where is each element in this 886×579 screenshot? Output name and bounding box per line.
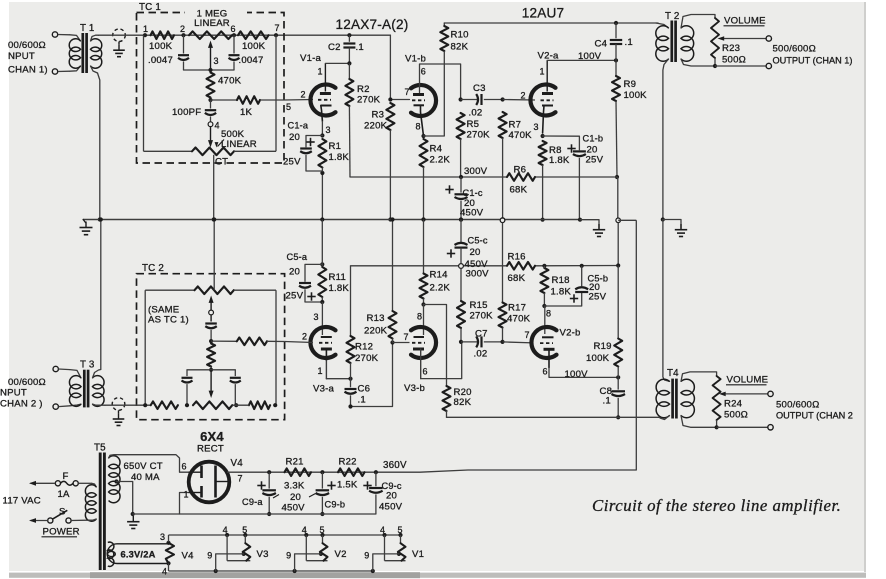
label VOLUME channel 1 xyxy=(724,16,766,27)
svg-text:1.8K: 1.8K xyxy=(329,152,350,163)
label 1 MEG LINEAR xyxy=(194,9,230,30)
svg-text:R3: R3 xyxy=(372,110,385,121)
svg-text:6.3V/2A: 6.3V/2A xyxy=(121,550,156,560)
resistor R10 xyxy=(440,23,468,136)
capacitor C1-c xyxy=(445,177,483,222)
svg-text:470K: 470K xyxy=(507,314,531,325)
resistor 1K TC2 xyxy=(211,338,285,346)
output terminals channel 1 xyxy=(715,36,852,69)
svg-text:.0047: .0047 xyxy=(148,55,173,66)
wire V3-b grid xyxy=(393,342,410,344)
svg-text:300V: 300V xyxy=(466,269,490,280)
heater rail bottom xyxy=(169,569,375,573)
svg-text:OUTPUT (CHAN 2: OUTPUT (CHAN 2 xyxy=(776,411,853,421)
svg-text:LINEAR: LINEAR xyxy=(194,18,230,29)
svg-text:R18: R18 xyxy=(552,275,570,286)
svg-text:100K: 100K xyxy=(586,353,610,364)
resistor R19 xyxy=(586,266,622,378)
resistor R20 xyxy=(424,305,472,418)
svg-text:25V: 25V xyxy=(589,292,607,303)
switch S xyxy=(29,507,71,524)
tube V1-b xyxy=(405,54,437,137)
svg-text:82K: 82K xyxy=(454,397,472,408)
svg-text:OUTPUT (CHAN 1): OUTPUT (CHAN 1) xyxy=(773,56,853,66)
svg-text:9: 9 xyxy=(207,551,212,561)
svg-text:.1: .1 xyxy=(356,42,364,53)
resistor R13 xyxy=(364,217,397,342)
svg-text:100PF: 100PF xyxy=(172,107,201,118)
svg-text:R7: R7 xyxy=(509,120,522,131)
wire caps row TC2 xyxy=(187,370,235,398)
svg-text:5: 5 xyxy=(286,102,291,112)
svg-text:R9: R9 xyxy=(624,79,637,90)
transformer T4 xyxy=(656,220,717,428)
svg-text:470K: 470K xyxy=(509,130,533,141)
svg-text:5: 5 xyxy=(398,525,403,535)
svg-text:V1: V1 xyxy=(412,549,424,560)
svg-text:220K: 220K xyxy=(364,326,388,337)
svg-text:T 2: T 2 xyxy=(665,11,680,22)
svg-text:CHAN 1): CHAN 1) xyxy=(8,65,48,76)
svg-text:00/600Ω: 00/600Ω xyxy=(8,377,46,388)
svg-text:R16: R16 xyxy=(508,252,526,263)
wire node 3 TC1 xyxy=(184,68,235,72)
svg-text:4: 4 xyxy=(302,525,307,535)
resistor R14 xyxy=(420,217,451,306)
resistor R17 xyxy=(499,218,531,344)
svg-text:650V CT: 650V CT xyxy=(124,461,163,472)
transformer T1 xyxy=(69,23,102,73)
rectifier tube V4 xyxy=(189,458,244,502)
label input channel 2 xyxy=(0,377,46,410)
svg-text:3.3K: 3.3K xyxy=(284,481,305,492)
resistor R4 xyxy=(420,134,451,222)
svg-text:1: 1 xyxy=(143,24,148,34)
svg-text:V1-b: V1-b xyxy=(405,54,426,65)
svg-text:Circuit of the stereo line amp: Circuit of the stereo line amplifier. xyxy=(592,496,841,515)
svg-text:LINEAR: LINEAR xyxy=(221,139,257,150)
wire V2-a grid xyxy=(503,99,535,102)
heater V4 xyxy=(160,532,194,577)
fuse F xyxy=(29,471,78,500)
svg-text:9: 9 xyxy=(364,551,369,561)
capacitor left TC2 xyxy=(182,370,193,405)
capacitor 100PF TC1 xyxy=(172,100,216,122)
resistor R15 xyxy=(457,268,493,344)
svg-text:1K: 1K xyxy=(240,107,253,118)
wire T1 secondary to ground bus xyxy=(98,73,102,222)
heater rail top xyxy=(169,533,403,537)
svg-text:6: 6 xyxy=(423,367,428,377)
svg-text:7: 7 xyxy=(238,474,243,484)
wire V4 pin 1 xyxy=(180,490,189,515)
svg-text:V3: V3 xyxy=(257,549,269,560)
svg-text:25V: 25V xyxy=(586,155,604,166)
resistor R2 xyxy=(345,63,380,177)
tube V1-a xyxy=(300,53,336,135)
label SAME AS TC1 xyxy=(148,305,189,326)
heater V2 xyxy=(286,525,347,571)
wire V3-a plate node xyxy=(326,377,352,381)
svg-text:8: 8 xyxy=(417,312,422,322)
capacitor C5-b xyxy=(544,266,608,306)
svg-text:68K: 68K xyxy=(510,185,528,196)
svg-text:C9-c: C9-c xyxy=(382,481,402,491)
svg-text:1.8K: 1.8K xyxy=(551,287,572,298)
svg-text:100V: 100V xyxy=(565,369,589,380)
resistor 100K right TC1 xyxy=(238,31,269,52)
svg-text:3: 3 xyxy=(326,125,331,135)
caption xyxy=(592,496,841,515)
wire B+ 360V xyxy=(228,460,637,474)
heater V3 xyxy=(207,525,268,571)
node 4 TC1 xyxy=(208,121,220,148)
svg-text:25V: 25V xyxy=(286,291,304,302)
svg-text:2: 2 xyxy=(180,24,185,34)
svg-text:4: 4 xyxy=(223,525,228,535)
wire TC1 left side xyxy=(143,35,145,151)
wire V1-a plate node xyxy=(325,61,351,65)
svg-text:NPUT: NPUT xyxy=(8,51,35,62)
wire V2-b grid xyxy=(503,342,534,343)
svg-text:RECT: RECT xyxy=(197,444,224,455)
svg-text:270K: 270K xyxy=(467,130,491,141)
svg-text:6: 6 xyxy=(421,67,426,77)
svg-text:R11: R11 xyxy=(329,272,347,283)
svg-text:C5-c: C5-c xyxy=(468,236,488,246)
svg-text:450V: 450V xyxy=(465,259,489,270)
potentiometer top TC2 xyxy=(145,286,276,310)
label 20 450V shared xyxy=(282,492,316,514)
capacitor .0047 right TC1 xyxy=(229,35,264,70)
wire TC2 right side xyxy=(275,290,277,405)
svg-text:25V: 25V xyxy=(283,157,301,168)
wire 300V rail channel 1 xyxy=(350,166,617,179)
svg-text:C4: C4 xyxy=(595,39,608,50)
svg-text:9: 9 xyxy=(286,551,291,561)
svg-text:C5-a: C5-a xyxy=(287,252,308,262)
svg-text:20: 20 xyxy=(470,247,481,258)
resistor R9 xyxy=(612,60,647,179)
svg-text:4: 4 xyxy=(215,121,220,131)
resistor R21 xyxy=(284,457,311,492)
svg-text:R23: R23 xyxy=(722,43,740,54)
label 12AU7 xyxy=(522,6,565,21)
svg-text:5: 5 xyxy=(242,525,247,535)
svg-text:R2: R2 xyxy=(357,84,370,95)
svg-text:6: 6 xyxy=(543,367,548,377)
svg-text:R13: R13 xyxy=(367,313,385,324)
svg-text:1: 1 xyxy=(318,67,323,77)
ground bus right ground xyxy=(580,220,605,237)
capacitor C7 xyxy=(461,329,503,360)
svg-text:C9-a: C9-a xyxy=(242,497,263,507)
svg-text:F: F xyxy=(63,471,69,482)
ground input channel 1 xyxy=(113,29,126,57)
label POWER xyxy=(42,527,80,538)
capacitor C4 xyxy=(595,23,633,60)
label 117 VAC xyxy=(3,496,41,507)
svg-text:T4: T4 xyxy=(667,368,679,379)
svg-text:3: 3 xyxy=(160,532,165,542)
svg-text:450V: 450V xyxy=(379,502,403,513)
svg-text:V1-a: V1-a xyxy=(300,53,322,64)
ground T2 primary xyxy=(661,217,688,236)
potentiometer 500K LINEAR TC1 xyxy=(144,129,277,168)
svg-text:4: 4 xyxy=(162,567,167,577)
label input channel 1 xyxy=(8,40,48,76)
node 4 TC2 xyxy=(209,310,214,321)
capacitor C9-c xyxy=(363,472,402,514)
ground input channel 2 xyxy=(112,398,125,426)
svg-text:.1: .1 xyxy=(603,396,611,407)
svg-text:12AX7-A(2): 12AX7-A(2) xyxy=(335,17,408,32)
svg-text:C3: C3 xyxy=(473,83,486,94)
svg-text:C7: C7 xyxy=(475,329,488,340)
potentiometer 1MEG TC1 xyxy=(189,31,232,70)
wire TC1 right side xyxy=(275,35,277,151)
svg-text:470K: 470K xyxy=(218,76,242,87)
svg-text:1.8K: 1.8K xyxy=(329,283,350,294)
svg-text:3: 3 xyxy=(214,56,219,66)
potentiometer R23 xyxy=(711,18,766,68)
svg-text:TC 2: TC 2 xyxy=(142,263,164,274)
wire 300V rail channel 2 xyxy=(351,263,621,279)
wire V3-a grid xyxy=(285,342,313,343)
svg-text:2: 2 xyxy=(301,90,306,100)
svg-text:1.5K: 1.5K xyxy=(337,480,358,491)
wire V3-b plate to C7 node xyxy=(421,344,462,379)
capacitor .0047 left TC1 xyxy=(148,35,189,70)
svg-text:C1-c: C1-c xyxy=(463,188,483,198)
capacitor 100PF TC2 xyxy=(205,324,217,344)
capacitor C1-a xyxy=(283,121,322,172)
svg-text:R21: R21 xyxy=(286,457,304,468)
svg-text:100V: 100V xyxy=(578,51,602,62)
svg-text:270K: 270K xyxy=(470,311,494,322)
input terminals channel 1 xyxy=(52,32,70,74)
wire B+ top channel 1 xyxy=(444,21,658,25)
wire feedback R20 C8 T4 xyxy=(447,416,660,418)
resistor R7 xyxy=(499,97,533,222)
svg-text:2.2K: 2.2K xyxy=(430,155,451,166)
svg-text:POWER: POWER xyxy=(43,527,80,538)
svg-text:6: 6 xyxy=(182,462,187,472)
svg-text:68K: 68K xyxy=(508,273,526,284)
capacitor C3 xyxy=(461,83,503,119)
svg-text:V2: V2 xyxy=(335,549,347,560)
svg-text:00/600Ω: 00/600Ω xyxy=(8,40,46,51)
pin 2 label TC1 xyxy=(180,24,185,34)
label VOLUME channel 2 xyxy=(726,375,768,386)
svg-text:270K: 270K xyxy=(357,95,381,106)
svg-text:7: 7 xyxy=(525,330,530,340)
wire V2-a plate 100V xyxy=(547,51,618,63)
svg-text:8: 8 xyxy=(546,309,551,319)
svg-text:20: 20 xyxy=(289,132,300,143)
wire V1-b plate to C3 node xyxy=(420,64,463,102)
svg-text:R12: R12 xyxy=(355,342,373,353)
ground bus xyxy=(83,217,582,221)
capacitor C5-a xyxy=(286,252,325,302)
svg-text:500/600Ω: 500/600Ω xyxy=(776,400,819,411)
svg-text:V2-b: V2-b xyxy=(560,328,581,339)
label 6X4 RECT xyxy=(197,429,224,455)
resistor 100K left TC1 xyxy=(149,31,174,52)
resistor R11 xyxy=(318,220,349,305)
svg-text:VOLUME: VOLUME xyxy=(724,16,766,27)
resistor 1K TC1 xyxy=(211,96,285,118)
svg-text:82K: 82K xyxy=(451,42,469,53)
svg-text:100K: 100K xyxy=(149,41,173,52)
resistor R6 xyxy=(507,165,535,196)
svg-text:.02: .02 xyxy=(469,108,483,119)
svg-text:V4: V4 xyxy=(231,458,244,469)
svg-text:R5: R5 xyxy=(467,119,480,130)
svg-text:AS TC 1): AS TC 1) xyxy=(148,315,189,326)
svg-text:7: 7 xyxy=(404,332,409,342)
svg-text:12AU7: 12AU7 xyxy=(522,6,565,21)
potentiometer bottom TC2 xyxy=(105,401,277,409)
svg-text:NPUT: NPUT xyxy=(0,388,27,399)
svg-text:5: 5 xyxy=(320,525,325,535)
capacitor C8 xyxy=(600,377,626,419)
svg-text:6X4: 6X4 xyxy=(200,429,224,444)
svg-text:.1: .1 xyxy=(625,37,633,48)
transformer T2 xyxy=(656,11,715,66)
tube V3-a xyxy=(302,302,336,395)
svg-text:1A: 1A xyxy=(58,489,71,500)
wire V2-b plate 100V xyxy=(549,368,620,380)
trim network box TC1 xyxy=(137,2,285,163)
svg-text:R1: R1 xyxy=(329,141,342,152)
pin 6 label TC1 xyxy=(231,24,236,34)
svg-text:V3-b: V3-b xyxy=(404,383,425,394)
svg-text:VOLUME: VOLUME xyxy=(727,375,769,386)
svg-text:TC 1: TC 1 xyxy=(139,2,161,13)
resistor R8 xyxy=(539,134,570,222)
svg-text:T 1: T 1 xyxy=(80,23,95,34)
wire T3 secondary to ground bus xyxy=(99,217,103,369)
svg-text:270K: 270K xyxy=(355,353,379,364)
capacitor C9-a xyxy=(242,472,279,516)
svg-text:T 3: T 3 xyxy=(80,360,95,371)
svg-text:R4: R4 xyxy=(430,144,443,155)
svg-text:V4: V4 xyxy=(182,551,195,562)
svg-text:1: 1 xyxy=(318,366,323,376)
svg-text:7: 7 xyxy=(405,87,410,97)
potentiometer R24 xyxy=(713,376,768,429)
svg-text:V3-a: V3-a xyxy=(313,384,335,395)
capacitor right TC2 xyxy=(230,370,241,405)
wire CT to ground bus xyxy=(212,155,216,222)
tube V2-b xyxy=(525,306,581,377)
svg-text:6: 6 xyxy=(231,24,236,34)
svg-text:R15: R15 xyxy=(470,300,488,311)
svg-text:500/600Ω: 500/600Ω xyxy=(773,44,816,55)
svg-text:20: 20 xyxy=(290,492,301,503)
svg-text:C9-b: C9-b xyxy=(325,500,346,510)
svg-text:1.8K: 1.8K xyxy=(549,155,570,166)
svg-text:R17: R17 xyxy=(508,303,526,314)
pin 7 label TC1 xyxy=(275,23,280,33)
capacitor C5-c xyxy=(447,220,488,270)
capacitor C1-b xyxy=(543,134,604,220)
svg-text:500Ω: 500Ω xyxy=(724,410,748,421)
label 12AX7-A(2) xyxy=(335,17,408,32)
svg-text:20: 20 xyxy=(289,267,300,278)
capacitor C6 xyxy=(345,379,371,407)
resistor R12 xyxy=(347,266,379,379)
svg-text:C1-b: C1-b xyxy=(583,134,604,144)
resistor R16 xyxy=(507,252,535,285)
resistor R3 xyxy=(364,103,394,222)
svg-text:.0047: .0047 xyxy=(239,55,264,66)
svg-text:C2: C2 xyxy=(328,42,341,53)
svg-text:R10: R10 xyxy=(451,30,469,41)
tube V3-b xyxy=(404,305,437,395)
capacitor C2 xyxy=(328,35,364,63)
svg-text:T5: T5 xyxy=(94,443,106,454)
svg-text:R19: R19 xyxy=(594,341,612,352)
wire B+ distribution link xyxy=(616,177,636,470)
wire C6 to V3-b grid xyxy=(348,340,394,408)
svg-text:7: 7 xyxy=(275,23,280,33)
svg-text:CHAN 2 ): CHAN 2 ) xyxy=(0,399,43,410)
heater V1 xyxy=(364,525,424,571)
svg-text:40 MA: 40 MA xyxy=(131,472,160,483)
output terminals channel 2 xyxy=(717,391,853,430)
svg-text:R22: R22 xyxy=(339,457,357,468)
svg-text:100K: 100K xyxy=(624,90,648,101)
svg-text:2: 2 xyxy=(521,91,526,101)
svg-text:CT: CT xyxy=(215,157,228,168)
svg-text:450V: 450V xyxy=(460,208,484,219)
svg-text:8: 8 xyxy=(416,122,421,132)
svg-text:20: 20 xyxy=(386,491,397,502)
svg-text:1: 1 xyxy=(184,490,189,500)
resistor R5 xyxy=(457,113,491,177)
svg-text:360V: 360V xyxy=(383,460,407,471)
wire PSU common ground xyxy=(127,514,376,529)
svg-text:117 VAC: 117 VAC xyxy=(3,496,41,507)
wires mains to T5 xyxy=(71,483,91,520)
svg-text:2.2K: 2.2K xyxy=(430,283,451,294)
svg-text:1: 1 xyxy=(540,67,545,77)
svg-text:.02: .02 xyxy=(474,349,488,360)
resistor R1 xyxy=(318,121,349,220)
svg-text:450V: 450V xyxy=(282,503,306,514)
svg-text:R14: R14 xyxy=(430,270,449,281)
tube V2-a xyxy=(521,51,560,134)
svg-text:500Ω: 500Ω xyxy=(722,55,746,66)
resistor 470K TC2 xyxy=(207,344,215,372)
wire 650V center tap xyxy=(114,479,134,516)
resistor 470K TC1 xyxy=(207,73,242,103)
svg-text:4: 4 xyxy=(380,525,385,535)
wire channel 1 input bus xyxy=(99,33,410,102)
wire TC2 CT to ground bus xyxy=(212,217,216,287)
svg-text:R24: R24 xyxy=(724,399,743,410)
svg-text:100K: 100K xyxy=(242,41,266,52)
svg-text:R6: R6 xyxy=(514,165,527,176)
ground bus left ground xyxy=(80,220,93,235)
svg-text:2: 2 xyxy=(302,332,307,342)
svg-text:3: 3 xyxy=(534,122,539,132)
transformer T3 xyxy=(69,360,105,408)
wire T2 primary bottom xyxy=(663,59,669,220)
wire TC2 left side xyxy=(144,290,146,405)
